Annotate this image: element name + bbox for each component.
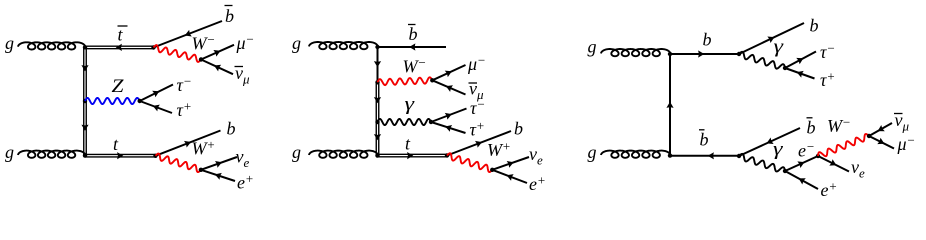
svg-text:τ−: τ− — [177, 74, 192, 96]
vertex e->nu_e W- (diagram 3) — [816, 154, 820, 158]
positron e+ outgoing (diagram 2) — [492, 170, 527, 183]
vertex Z decay (diagram 1) — [138, 99, 142, 103]
vertex g-bbar (diagram 2 top-left) — [375, 45, 379, 49]
bbar propagator vertical (diagram 3, single) — [669, 54, 671, 156]
vertex gamma->e+e- (diagram 3) — [783, 169, 787, 173]
tau+ outgoing (diagram 1) — [140, 101, 172, 113]
muon mu- outgoing (diagram 1) — [201, 45, 234, 60]
tau+ outgoing (diagram 3) — [785, 68, 815, 79]
vertex W+ decay (diagram 2) — [490, 168, 494, 172]
antibottom bbar outgoing (diagram 3) — [739, 128, 800, 156]
svg-text:b: b — [227, 119, 236, 139]
svg-text:W−: W− — [827, 115, 851, 137]
muon mu- outgoing (diagram 3) — [869, 136, 894, 149]
svg-text:μ−: μ− — [467, 53, 486, 75]
vertex t-Z emission (diagram 1) — [83, 99, 87, 103]
svg-text:τ−: τ− — [820, 41, 835, 63]
antitop propagator tbar (diagram 1 top, double line) — [85, 46, 154, 49]
gluon g (diagram 3 top) — [601, 49, 670, 56]
W+ boson wavy (diagram 1, red) — [156, 154, 201, 173]
svg-text:g: g — [588, 37, 597, 57]
top propagator vertical upper (diagram 2, double line) — [376, 82, 379, 122]
gluon g (diagram 1 bottom) — [18, 151, 85, 158]
bottom quark b outgoing (diagram 3 top) — [739, 23, 804, 54]
vertex W- decay (diagram 1) — [199, 57, 203, 61]
top propagator t (diagram 2 bottom, double line) — [378, 154, 448, 157]
svg-text:νe: νe — [851, 157, 865, 181]
svg-text:μ−: μ− — [897, 133, 916, 155]
positron e+ outgoing (diagram 1) — [201, 170, 235, 181]
gluon g (diagram 2 bottom) — [309, 151, 378, 158]
svg-text:e−: e− — [798, 139, 815, 161]
antibottom bbar horizontal (diagram 3) — [670, 155, 739, 157]
vertex g-bbar (diagram 3 bottom-left) — [668, 153, 672, 157]
tau+ outgoing (diagram 2) — [431, 122, 466, 133]
vertex t-gamma emission (diagram 2) — [375, 120, 379, 124]
photon gamma wavy (diagram 3 top) — [739, 52, 785, 69]
svg-text:e+: e+ — [529, 173, 546, 195]
vertex g-b (diagram 3 top-left) — [668, 52, 672, 56]
bottom quark b horizontal (diagram 3) — [670, 53, 739, 55]
neutrino nu_e outgoing (diagram 1) — [201, 157, 237, 170]
Z boson wavy (diagram 1, blue) — [85, 98, 140, 104]
svg-text:γ: γ — [774, 37, 784, 58]
svg-text:W−: W− — [192, 32, 216, 54]
svg-text:b: b — [807, 118, 816, 138]
tau- outgoing (diagram 1) — [140, 85, 173, 102]
vertex g-t (diagram 2 bottom-left) — [375, 153, 379, 157]
svg-text:Z: Z — [112, 76, 124, 97]
W- boson wavy (diagram 3, red) — [818, 134, 869, 156]
vertex b->b gamma (diagram 3 top) — [737, 52, 741, 56]
svg-text:g: g — [5, 33, 14, 53]
bottom quark b outgoing (diagram 2) — [447, 131, 511, 156]
electron e- line (diagram 3) — [785, 156, 818, 171]
vertex t->b W+ (diagram 2) — [445, 153, 449, 157]
b propagator vertical (diagram 2, single) — [377, 47, 379, 82]
vertex g-t (diagram 1 bottom-left) — [83, 153, 87, 157]
svg-text:g: g — [588, 142, 597, 162]
vertex W+ decay (diagram 1) — [199, 168, 203, 172]
svg-text:e+: e+ — [237, 171, 254, 193]
svg-text:b: b — [225, 6, 234, 26]
vertex bbar->bbar gamma (diagram 3 bottom) — [737, 154, 741, 158]
tau- outgoing (diagram 2) — [431, 109, 467, 123]
svg-text:t: t — [113, 134, 119, 154]
svg-text:g: g — [292, 33, 301, 53]
top propagator vertical lower (diagram 2, double line) — [376, 122, 379, 156]
svg-text:νe: νe — [236, 147, 250, 171]
svg-text:b: b — [700, 130, 709, 150]
svg-text:b: b — [514, 119, 523, 139]
svg-text:e+: e+ — [821, 179, 838, 201]
svg-text:μ−: μ− — [236, 32, 255, 54]
W+ boson wavy (diagram 2, red) — [447, 153, 492, 172]
svg-text:g: g — [5, 142, 14, 162]
muon mu- outgoing (diagram 2) — [432, 65, 465, 80]
vertex b->t W- (diagram 2) — [375, 80, 379, 84]
svg-text:b: b — [810, 16, 819, 36]
antineutrino nubar_mu outgoing (diagram 1) — [201, 60, 233, 75]
svg-text:b: b — [409, 24, 418, 44]
svg-text:τ+: τ+ — [820, 69, 835, 91]
vertex gamma decay (diagram 2) — [429, 120, 433, 124]
svg-text:W+: W+ — [487, 138, 511, 160]
neutrino nu_e outgoing (diagram 2) — [492, 157, 529, 170]
top propagator t (diagram 1 bottom, double line) — [85, 154, 156, 157]
tau- outgoing (diagram 3) — [785, 52, 816, 69]
antineutrino nubar_mu outgoing (diagram 2) — [432, 80, 465, 94]
svg-text:γ: γ — [405, 94, 415, 115]
bottom quark b outgoing (diagram 1) — [156, 131, 221, 156]
photon gamma wavy (diagram 2) — [378, 119, 432, 125]
vertex W- decay (diagram 2) — [430, 78, 434, 82]
vertex t->b W+ (diagram 1) — [153, 154, 157, 158]
gluon g (diagram 3 bottom) — [601, 151, 670, 158]
vertex tbar->bbar W- (diagram 1) — [151, 45, 155, 49]
top propagator vertical lower (diagram 1, double line) — [84, 101, 87, 156]
antibottom bbar outgoing horizontal (diagram 2) — [378, 46, 447, 48]
svg-text:τ+: τ+ — [470, 118, 485, 140]
vertex gamma decay (diagram 3 top) — [783, 66, 787, 70]
photon gamma wavy (diagram 3 bottom) — [739, 154, 785, 172]
svg-text:W−: W− — [403, 55, 427, 77]
svg-text:τ−: τ− — [470, 97, 485, 119]
vertex W- decay (diagram 3) — [867, 134, 871, 138]
W- boson wavy (diagram 1, red) — [154, 45, 202, 62]
antibottom bbar outgoing (diagram 1) — [154, 21, 223, 48]
antineutrino nubar_mu outgoing (diagram 3) — [869, 123, 892, 136]
svg-text:γ: γ — [773, 139, 783, 160]
W- boson wavy (diagram 2, red) — [378, 77, 433, 85]
top propagator vertical (diagram 1, double line) — [84, 47, 87, 101]
svg-text:t: t — [118, 25, 124, 45]
svg-text:νe: νe — [529, 144, 543, 168]
vertex g-tbar (diagram 1 top-left) — [83, 45, 87, 49]
svg-text:τ+: τ+ — [177, 99, 192, 121]
gluon g (diagram 2 top) — [309, 42, 378, 49]
svg-text:g: g — [292, 142, 301, 162]
neutrino nu_e outgoing (diagram 3) — [818, 156, 849, 172]
positron e+ outgoing (diagram 3) — [785, 171, 818, 189]
svg-text:b: b — [703, 30, 712, 50]
svg-text:t: t — [405, 134, 411, 154]
gluon g (diagram 1 top) — [18, 42, 85, 49]
svg-text:W+: W+ — [192, 137, 216, 159]
